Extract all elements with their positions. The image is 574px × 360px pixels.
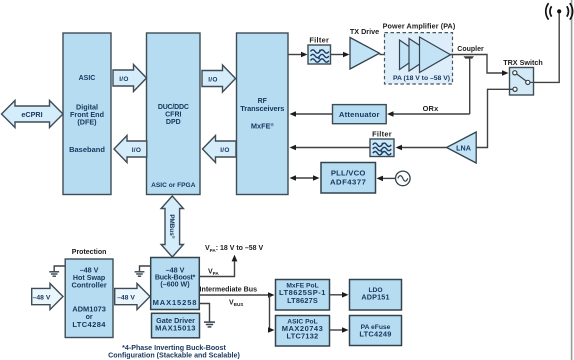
- wire U3 to PLL double arrow: [290, 175, 320, 181]
- svg-text:DUC/DDC: DUC/DDC: [158, 104, 189, 111]
- svg-text:TRX Switch: TRX Switch: [503, 58, 543, 67]
- PMBus double arrow: [161, 196, 183, 257]
- svg-text:TX Drive: TX Drive: [350, 27, 379, 36]
- ground G3: [199, 304, 215, 327]
- svg-text:Coupler: Coupler: [457, 46, 484, 53]
- wire intermediate bus: [199, 286, 274, 308]
- wire TX Drive to PA: [380, 52, 398, 58]
- wire switch to LNA: [476, 89, 513, 147]
- svg-text:(–600 W): (–600 W): [160, 281, 190, 289]
- block U1 ASIC Digital Front End (DFE) Baseband: [63, 33, 111, 195]
- svg-text:(DFE): (DFE): [77, 117, 97, 126]
- svg-text:ADP151: ADP151: [361, 293, 389, 302]
- antenna: [546, 3, 573, 19]
- svg-text:MAX15013: MAX15013: [155, 324, 196, 333]
- -48V input arrow 1: [32, 284, 63, 310]
- ground G1: [49, 266, 65, 276]
- wire MxFE PoL to LDO: [330, 292, 349, 298]
- svg-text:Controller: Controller: [71, 281, 106, 290]
- I/O arrow B (U2 to U3): [202, 65, 236, 92]
- coupler: [457, 46, 484, 59]
- I/O arrow D (U3 to U2): [203, 136, 237, 163]
- MxFE PoL LT8625SP-1 LT8627S: [276, 280, 330, 311]
- svg-text:eCPRI: eCPRI: [21, 110, 42, 119]
- block U3 RF Transceivers MxFE: [237, 33, 289, 195]
- svg-text:Attenuator: Attenuator: [339, 110, 380, 119]
- LNA: [447, 132, 477, 163]
- svg-text:LNA: LNA: [456, 143, 471, 152]
- ground G2: [135, 266, 151, 276]
- power amplifier PA dashed box: [383, 22, 456, 85]
- svg-text:I/O: I/O: [132, 147, 142, 154]
- ASIC PoL MAX20743 LTC7132: [276, 316, 330, 347]
- block U2 DUC/DDC CFRI DPD ASIC or FPGA: [147, 33, 201, 195]
- PLL/VCO ADF4377: [321, 163, 376, 194]
- I/O arrow A (U1 to U2): [113, 65, 147, 92]
- svg-text:CFRI: CFRI: [165, 112, 181, 119]
- svg-text:LTC4249: LTC4249: [359, 329, 391, 338]
- svg-text:LTC7132: LTC7132: [287, 332, 319, 341]
- wire F1 to TX Drive: [331, 52, 350, 58]
- wire ASIC PoL to PA eFuse: [330, 327, 349, 333]
- wire ORx to attenuator: [387, 104, 470, 117]
- svg-text:LTC4284: LTC4284: [72, 320, 106, 329]
- svg-text:Power Amplifier (PA): Power Amplifier (PA): [383, 22, 456, 31]
- svg-text:ORx: ORx: [423, 104, 439, 113]
- svg-text:–48 V: –48 V: [33, 294, 51, 301]
- svg-text:Filter: Filter: [309, 35, 329, 44]
- wire U3 to filter F1: [288, 52, 308, 58]
- filter F2: [370, 130, 394, 157]
- svg-text:PLL/VCO: PLL/VCO: [331, 169, 366, 178]
- wire antenna to switch: [534, 13, 560, 82]
- svg-text:–48 V: –48 V: [117, 294, 135, 301]
- wire VPA output: [199, 255, 237, 277]
- svg-text:I/O: I/O: [208, 76, 218, 83]
- svg-text:Configuration (Stackable and S: Configuration (Stackable and Scalable): [108, 351, 240, 359]
- svg-text:Filter: Filter: [372, 130, 392, 139]
- footnote: [108, 344, 240, 360]
- TX Drive amplifier: [350, 27, 380, 69]
- LDO ADP151: [350, 280, 402, 311]
- svg-text:Baseband: Baseband: [69, 145, 105, 154]
- wire PA to switch corner: [451, 55, 509, 76]
- attenuator: [333, 105, 387, 124]
- wire bus branch to ASIC PoL: [268, 295, 275, 333]
- wire attenuator to U3: [290, 111, 333, 117]
- filter F1: [308, 35, 331, 64]
- -48V arrow 2: [115, 284, 150, 310]
- svg-text:Transceivers: Transceivers: [240, 104, 284, 113]
- svg-text:LT8627S: LT8627S: [287, 296, 318, 305]
- svg-text:MAX15258: MAX15258: [153, 298, 198, 307]
- svg-text:PA (18 V to –58 V): PA (18 V to –58 V): [393, 75, 450, 82]
- PA stage amp 2: [409, 39, 434, 72]
- I/O arrow C (U2 to U1): [114, 136, 147, 163]
- protection box ADM1073 or LTC4284: [65, 249, 113, 337]
- PA stage amp 1: [400, 40, 422, 70]
- buck-boost MAX15258: [151, 258, 200, 310]
- svg-text:I/O: I/O: [119, 76, 129, 83]
- svg-text:DPD: DPD: [166, 119, 181, 126]
- eCPRI double arrow: [2, 101, 64, 128]
- svg-text:PMBus®: PMBus®: [168, 214, 176, 238]
- svg-text:ADF4377: ADF4377: [330, 177, 366, 186]
- svg-text:ASIC: ASIC: [79, 75, 96, 82]
- PA eFuse LTC4249: [350, 316, 402, 346]
- PA stage amp 3: [420, 37, 451, 73]
- svg-text:ASIC or FPGA: ASIC or FPGA: [151, 182, 196, 189]
- wire F2 to U3: [290, 145, 371, 151]
- gate driver MAX15013: [152, 313, 200, 338]
- svg-text:Intermediate Bus: Intermediate Bus: [200, 286, 258, 294]
- oscillator reference: [396, 171, 411, 186]
- svg-text:Protection: Protection: [72, 249, 107, 256]
- wire LNA to filter F2: [396, 145, 447, 151]
- wire coupler tap down to ORx: [469, 59, 471, 115]
- wire oscillator to PLL: [377, 176, 396, 182]
- TRX switch: [503, 58, 543, 95]
- svg-text:I/O: I/O: [220, 147, 230, 154]
- svg-text:ADM1073: ADM1073: [72, 304, 106, 313]
